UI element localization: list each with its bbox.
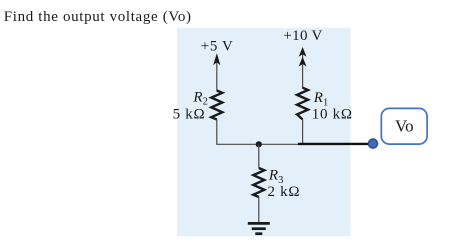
svg-text:Find the output voltage (Vo): Find the output voltage (Vo) xyxy=(4,9,192,25)
thick output wire xyxy=(298,143,371,145)
+5V source arrow xyxy=(213,53,220,91)
svg-text:+10 V: +10 V xyxy=(283,28,322,44)
wire R2 bottom xyxy=(216,120,218,145)
bottom horizontal wire xyxy=(216,143,303,145)
wire junction to R3 xyxy=(258,144,260,168)
wire R1 bottom xyxy=(302,119,304,144)
resistor R2 xyxy=(211,91,222,120)
svg-text:+5 V: +5 V xyxy=(201,39,234,55)
ground xyxy=(248,223,270,233)
background panel xyxy=(177,28,351,236)
resistor R3 xyxy=(253,168,264,197)
svg-text:5 kΩ: 5 kΩ xyxy=(173,106,206,122)
wire R3 to ground xyxy=(258,197,260,223)
output node dot xyxy=(368,139,377,148)
junction node xyxy=(256,141,262,147)
svg-text:Vo: Vo xyxy=(395,117,414,136)
resistor R1 xyxy=(297,88,308,120)
Vo box xyxy=(381,108,427,144)
svg-text:10 kΩ: 10 kΩ xyxy=(312,106,353,122)
svg-text:2 kΩ: 2 kΩ xyxy=(268,184,301,200)
+10V source arrow (double head) xyxy=(299,47,307,88)
